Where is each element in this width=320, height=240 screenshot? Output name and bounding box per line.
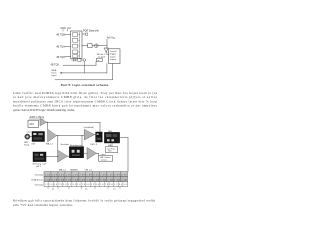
svg-text:0.5: 0.5 <box>85 188 87 190</box>
gate box G1 <box>88 44 93 48</box>
svg-text:5V/A directo: 5V/A directo <box>31 179 44 182</box>
svg-text:4B TQB: 4B TQB <box>56 34 65 37</box>
node N1 <box>83 59 86 62</box>
svg-text:78: 78 <box>59 184 62 186</box>
node sum junction <box>95 44 99 48</box>
diode D1 <box>73 59 76 61</box>
svg-text:3.0V: 3.0V <box>93 174 99 176</box>
svg-text:4x9 Vcc: 4x9 Vcc <box>107 37 116 40</box>
regulator box ADJ <box>28 120 39 127</box>
svg-text:0.4A: 0.4A <box>121 178 127 181</box>
wire TQD <box>65 56 71 58</box>
wire J1 to M1 <box>30 136 32 138</box>
IC M3 (dark module large) <box>104 132 119 143</box>
transistor Q1 (inverter triangle) <box>104 48 108 52</box>
box B1 <box>99 156 113 162</box>
svg-text:Vivienda: Vivienda <box>35 175 44 177</box>
svg-text:4B TQD: 4B TQD <box>56 56 65 59</box>
IC M4 (dark module center) <box>69 147 83 158</box>
svg-text:1.2V: 1.2V <box>66 174 72 176</box>
svg-text:Vivienda: Vivienda <box>35 185 44 187</box>
op-amp A1 <box>40 119 46 126</box>
svg-text:0.8A: 0.8A <box>59 178 65 181</box>
op-amp A3 <box>84 130 94 140</box>
op-amp U1 (main IC block) <box>71 31 83 59</box>
svg-text:Count/: Count/ <box>110 50 117 53</box>
pin marks U1 right <box>78 35 80 57</box>
svg-text:56: 56 <box>77 184 80 186</box>
svg-text:0.6A: 0.6A <box>79 178 85 181</box>
svg-text:3.3V: 3.3V <box>59 174 65 176</box>
op-amp A2 MA 1.2 <box>48 129 57 142</box>
svg-text:0.9A: 0.9A <box>100 178 106 181</box>
svg-text:0.7V: 0.7V <box>121 174 127 176</box>
wire U1 top-right stub <box>82 33 86 35</box>
svg-text:0.5A: 0.5A <box>45 178 51 181</box>
svg-text:34: 34 <box>119 184 122 186</box>
wire into A4 <box>46 155 58 157</box>
gate box G2 <box>97 58 103 61</box>
node feedback junction <box>47 122 48 123</box>
svg-text:12: 12 <box>114 184 117 186</box>
pin pad <box>86 33 88 35</box>
svg-text:1.1V: 1.1V <box>107 174 113 176</box>
wire sum to right <box>98 45 107 47</box>
op-amp A4 <box>58 150 68 162</box>
svg-text:2.0A: 2.0A <box>66 178 72 181</box>
svg-text:1.5V: 1.5V <box>45 174 51 176</box>
svg-text:MA 1.4: MA 1.4 <box>59 168 67 171</box>
svg-text:56: 56 <box>123 184 126 186</box>
svg-text:4.0V: 4.0V <box>73 174 79 176</box>
svg-text:ganas SAGLITICH lógic düdah se: ganas SAGLITICH lógic düdah sekitang cur… <box>13 108 75 112</box>
svg-text:2.2V: 2.2V <box>100 174 106 176</box>
svg-text:0.1: 0.1 <box>52 188 54 190</box>
svg-text:OM 1.4: OM 1.4 <box>85 169 93 171</box>
svg-text:ADJ: ADJ <box>30 123 34 126</box>
svg-text:pB 1: pB 1 <box>36 166 41 168</box>
wire drop to A2 input <box>47 122 49 130</box>
svg-text:90: 90 <box>110 184 113 186</box>
filter box F1 <box>106 147 118 153</box>
svg-text:12: 12 <box>68 184 71 186</box>
svg-text:Germany / ad: Germany / ad <box>32 163 46 166</box>
svg-text:MA/MB: MA/MB <box>70 168 78 171</box>
svg-text:2.1V: 2.1V <box>52 174 58 176</box>
cell 2 inside U1 <box>73 38 78 42</box>
wire A1 out / feedback top <box>46 122 100 132</box>
svg-text:Vosciliert: Vosciliert <box>60 143 69 146</box>
wire gate to sum <box>92 45 94 47</box>
wire A3 out <box>94 134 95 136</box>
wire U1 mid-right <box>82 44 88 46</box>
svg-text:4B TQE: 4B TQE <box>51 64 60 67</box>
svg-text:1.4A: 1.4A <box>73 178 79 181</box>
svg-text:Casteltrelli: Casteltrelli <box>83 126 94 129</box>
svg-text:2.4A: 2.4A <box>93 178 99 181</box>
svg-text:MDA: MDA <box>52 69 57 72</box>
svg-text:1.8V: 1.8V <box>86 174 92 176</box>
svg-text:12: 12 <box>45 184 48 186</box>
cell 5 inside U1 <box>73 55 78 58</box>
op-amp A5 <box>87 148 96 160</box>
IC M1 (dark module) <box>32 132 45 142</box>
svg-text:sensor: sensor <box>101 159 107 162</box>
svg-text:PQR Data with: PQR Data with <box>83 30 99 33</box>
svg-text:34: 34 <box>96 184 99 186</box>
svg-text:pilo +5V kad sindromi légico v: pilo +5V kad sindromi légico venciste. <box>13 203 73 207</box>
wire A5 to box <box>96 153 98 155</box>
svg-text:GNDVcc: GNDVcc <box>61 27 72 30</box>
svg-text:trigger: trigger <box>110 53 116 56</box>
IC M2 (dark module) <box>96 132 103 142</box>
bus line inside U1 <box>79 32 81 58</box>
svg-text:Temp: Temp <box>24 144 30 146</box>
wire lower return <box>55 64 113 80</box>
svg-text:1.6A: 1.6A <box>107 178 113 181</box>
wire M3 to filter <box>111 143 113 146</box>
svg-text:4B TQA: 4B TQA <box>56 46 65 49</box>
svg-text:filter: filter <box>108 150 112 153</box>
svg-text:1.0: 1.0 <box>113 188 115 190</box>
svg-text:OM 1.3: OM 1.3 <box>90 144 98 146</box>
wire TQE row <box>63 62 96 66</box>
svg-text:input/: input/ <box>110 55 116 58</box>
connector J1 <box>25 134 30 139</box>
wire M4 to A5 <box>84 152 87 154</box>
wire GND stub <box>62 30 64 31</box>
wire diode row <box>72 59 74 61</box>
wire MDA row with arrow <box>60 64 107 73</box>
svg-text:1.0A: 1.0A <box>86 178 92 181</box>
svg-text:2.5V: 2.5V <box>79 174 85 176</box>
svg-text:78: 78 <box>82 184 85 186</box>
wire branch down at 58.5 <box>57 136 59 157</box>
cell 1 inside U1 <box>73 33 78 37</box>
wire branch down at 82 <box>81 136 83 147</box>
svg-text:1.3A: 1.3A <box>114 178 120 181</box>
wire Vcc rail down <box>106 39 108 48</box>
svg-text:56: 56 <box>54 184 57 186</box>
svg-text:1.2A: 1.2A <box>52 178 58 181</box>
svg-text:90: 90 <box>63 184 66 186</box>
svg-text:MA 1.2: MA 1.2 <box>46 143 54 146</box>
counter box U2 <box>109 49 120 64</box>
wire TQB <box>65 34 71 36</box>
gate box G3 <box>78 59 81 62</box>
svg-text:Part 5: logic-oriented scheme.: Part 5: logic-oriented scheme. <box>61 83 110 87</box>
svg-text:OM: OM <box>31 143 35 145</box>
wire A2 out <box>56 135 84 137</box>
wire node down <box>83 61 85 73</box>
svg-text:Drive: Drive <box>52 71 58 74</box>
cell 3 inside U1 <box>73 44 78 48</box>
svg-text:output: output <box>110 58 116 61</box>
svg-text:56: 56 <box>100 184 103 186</box>
svg-text:Input: Input <box>52 74 57 77</box>
IC M5 (dark module bottom-left) <box>33 152 46 162</box>
wire M3 right drop <box>120 138 128 172</box>
svg-text:78: 78 <box>105 184 108 186</box>
wire to node <box>81 59 83 61</box>
svg-text:12: 12 <box>91 184 94 186</box>
svg-text:90: 90 <box>86 184 89 186</box>
wire TQA <box>65 46 71 48</box>
svg-text:34: 34 <box>49 184 52 186</box>
wire A4 out <box>67 155 69 157</box>
table grid <box>44 172 128 191</box>
svg-text:34: 34 <box>72 184 75 186</box>
wire Vcc stub <box>67 30 69 31</box>
cell 4 inside U1 <box>73 50 78 54</box>
svg-text:2.8V: 2.8V <box>114 174 120 176</box>
